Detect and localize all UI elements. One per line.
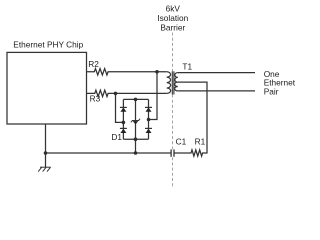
svg-text:R1: R1: [195, 137, 206, 147]
svg-text:R3: R3: [90, 94, 101, 104]
svg-text:Pair: Pair: [264, 87, 279, 97]
svg-text:Barrier: Barrier: [160, 23, 185, 33]
svg-text:C1: C1: [176, 137, 187, 147]
svg-text:D1: D1: [111, 132, 122, 142]
svg-text:R2: R2: [88, 59, 99, 69]
svg-text:T1: T1: [182, 62, 192, 72]
svg-text:Ethernet PHY Chip: Ethernet PHY Chip: [13, 40, 83, 50]
svg-text:6kV: 6kV: [166, 4, 181, 14]
